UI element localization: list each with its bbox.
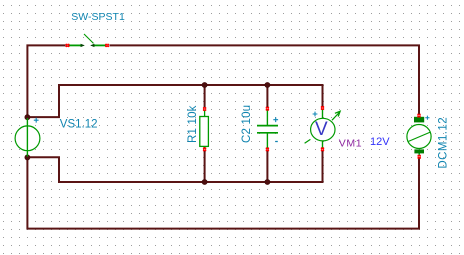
svg-text:R1 10k: R1 10k [187, 105, 199, 143]
svg-text:V: V [315, 119, 328, 140]
svg-text:SW-SPST1: SW-SPST1 [71, 11, 125, 23]
svg-text:VS1.12: VS1.12 [60, 118, 98, 130]
svg-text:DCM1.12: DCM1.12 [438, 117, 450, 169]
svg-text:VM1: VM1 [339, 137, 362, 149]
svg-text:C2 10u: C2 10u [241, 105, 253, 143]
svg-text:12V: 12V [370, 136, 390, 148]
